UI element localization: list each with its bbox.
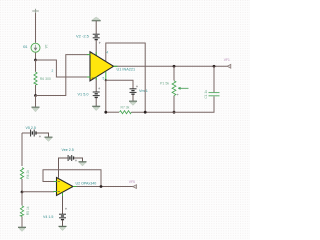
- junction U2 output: [100, 185, 103, 188]
- svg-text:Vm 1: Vm 1: [139, 89, 148, 93]
- svg-text:VF5: VF5: [129, 180, 135, 184]
- ground below R6: [32, 107, 40, 112]
- junction output/pot: [173, 65, 176, 68]
- wire node C to R5: [21, 192, 23, 206]
- junction ref node: [105, 79, 107, 81]
- svg-text:I01: I01: [23, 45, 28, 49]
- wire node A down to R6: [35, 60, 37, 72]
- battery V5: [31, 130, 36, 137]
- junction output/cap: [213, 65, 216, 68]
- probe VF5 arrow: [133, 185, 137, 189]
- resistor R5: [20, 206, 23, 217]
- svg-text:5: 5: [103, 76, 105, 80]
- pin V- stub: [95, 52, 97, 56]
- probe VF1 arrow: [227, 64, 231, 68]
- svg-text:2: 2: [52, 69, 54, 73]
- wire node B to U1 inverting input: [36, 55, 88, 96]
- svg-text:C1 1u: C1 1u: [204, 90, 208, 99]
- wire V1 to ground: [95, 98, 97, 106]
- junction rail/feedback: [144, 111, 147, 114]
- svg-text:P1 5k: P1 5k: [160, 81, 169, 85]
- junction pot/rail: [173, 111, 176, 114]
- svg-text:R7 3k: R7 3k: [121, 106, 130, 110]
- wire output node to potentiometer: [173, 66, 175, 80]
- capacitor C1: [209, 93, 220, 96]
- ground below V4: [59, 226, 67, 230]
- U1 bottom power pin to V1: [95, 77, 97, 92]
- resistor R7: [120, 111, 132, 114]
- wire ref node to Vm1: [106, 80, 133, 88]
- svg-text:Vee 2.5: Vee 2.5: [62, 148, 74, 152]
- svg-text:VF1: VF1: [224, 58, 230, 62]
- U1 input pin stubs: [87, 55, 91, 77]
- ground right of V5: [45, 137, 53, 141]
- bottom rail left with R7: [106, 111, 119, 113]
- svg-text:V4 1.5: V4 1.5: [43, 215, 53, 219]
- potentiometer P1: [172, 81, 176, 96]
- U2 input pin stubs: [54, 182, 58, 192]
- output wire U2 to VF5 probe: [73, 186, 133, 188]
- resistor R6: [34, 72, 37, 85]
- ground above V2 (flipped, arrow up): [92, 17, 101, 21]
- svg-text:V5 2.5: V5 2.5: [26, 126, 36, 130]
- node C junction: [21, 191, 24, 194]
- resistor R4: [20, 168, 23, 179]
- wire pot to bottom rail: [173, 96, 175, 113]
- U1 ref pin stub: [105, 72, 107, 81]
- battery V2: [93, 34, 100, 39]
- svg-text:4: 4: [106, 51, 108, 55]
- ground right of Vee: [79, 162, 87, 166]
- node A junction: [34, 59, 37, 62]
- wire V5 down to R4: [21, 133, 23, 166]
- U1 top aux pin wire to feedback: [106, 43, 145, 112]
- wire ref node down to bottom rail: [105, 80, 107, 112]
- svg-text:V1 5.0: V1 5.0: [78, 93, 89, 97]
- svg-text:R5 1k: R5 1k: [26, 206, 30, 215]
- svg-text:1A: 1A: [44, 44, 48, 49]
- wire V2 to U1 V- pin: [95, 40, 97, 56]
- wire V4 to ground: [62, 220, 64, 226]
- wire V5 to ground: [36, 133, 48, 137]
- svg-text:U2 OPAx340: U2 OPAx340: [76, 182, 97, 186]
- battery Vee: [68, 155, 73, 161]
- wire I01 to node A: [35, 53, 37, 60]
- wire corner V5: [22, 132, 30, 134]
- ground below R5: [18, 227, 26, 231]
- junction rail left: [104, 111, 107, 114]
- wire R5 to ground: [21, 216, 23, 227]
- wire output node to capacitor: [213, 66, 215, 92]
- ground below Vm1: [129, 101, 137, 105]
- wire ground to V2: [95, 21, 97, 34]
- output wire U1 to VF1 probe: [114, 65, 228, 67]
- svg-text:U1 INA221: U1 INA221: [117, 67, 136, 71]
- wire Vm1 to ground: [132, 95, 134, 101]
- feedback wire U2 output to inverting input: [43, 170, 101, 187]
- op-amp U2: [57, 178, 74, 196]
- wire R7 to pot junction: [131, 111, 174, 113]
- battery Vm1: [130, 89, 137, 94]
- U2 bottom power pin to V4: [62, 193, 64, 214]
- wire R4 to node C: [21, 179, 23, 192]
- ground below V1: [92, 106, 100, 110]
- wire from terminal to I01: [35, 13, 37, 43]
- wire capacitor to bottom rail corner: [174, 96, 214, 112]
- wire Vee to ground: [74, 158, 83, 161]
- battery V4: [59, 214, 66, 219]
- wire node C to U2 noninverting input: [22, 191, 54, 193]
- svg-text:R4 2k: R4 2k: [26, 170, 30, 179]
- node IO terminal top-left: [32, 9, 39, 13]
- wire U2 top power to Vee: [59, 158, 68, 178]
- wire node A to U1 noninverting input: [36, 60, 88, 77]
- op-amp U1: [90, 52, 114, 81]
- wire R6 to node B: [35, 85, 37, 96]
- svg-text:V2 -2.5: V2 -2.5: [76, 34, 90, 39]
- wire node B down to ground: [35, 96, 37, 107]
- current source I01: [31, 43, 40, 52]
- svg-text:R6 300: R6 300: [40, 77, 51, 81]
- node B junction: [34, 94, 37, 97]
- P1 wiper arrow: [178, 87, 188, 89]
- battery V1: [93, 92, 100, 97]
